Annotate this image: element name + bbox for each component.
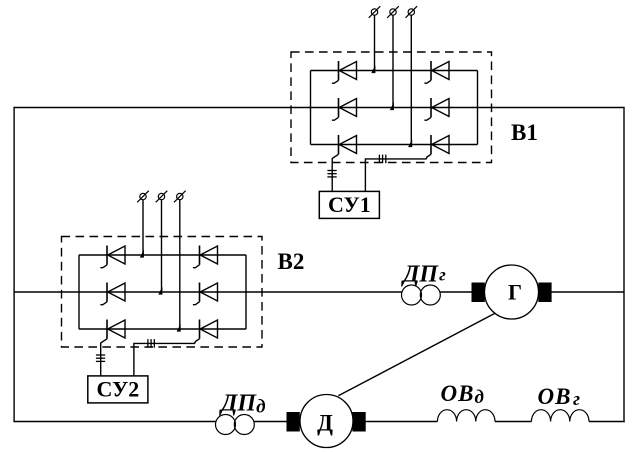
gate wire from B2 bottom-left thyristor to СУ2 — [101, 339, 107, 376]
shaft coupling line between Г and Д — [338, 313, 495, 396]
thyristor B1 bottom-left — [339, 135, 357, 154]
phase line 2 of B1 — [392, 15, 394, 107]
svg-text:ОВд: ОВд — [441, 381, 484, 408]
thyristor B2 middle-left — [107, 283, 125, 302]
bridge B2 frame left side — [78, 255, 80, 329]
svg-text:СУ2: СУ2 — [96, 377, 139, 402]
gate wire from B1 bottom-left thyristor to СУ1 — [332, 154, 338, 191]
cable marks on СУ1 left lead — [327, 171, 336, 177]
junction phase 3 to row 3 of B2 — [177, 324, 181, 332]
junction phase 2 to row 2 of B1 — [390, 102, 394, 110]
wire ОВг to right bus — [589, 421, 625, 423]
generator right wire — [551, 291, 624, 293]
gate wire from B1 bottom-right thyristor to СУ1 — [365, 154, 431, 191]
cable marks on СУ2 left lead — [96, 355, 105, 361]
wire motor Д to ОВд — [365, 421, 437, 423]
phase line 1 of B2 — [142, 200, 144, 255]
svg-text:ДПд: ДПд — [219, 391, 266, 418]
svg-text:ДПг: ДПг — [401, 262, 446, 288]
right vertical bus wire — [623, 107, 625, 422]
generator Г circle — [485, 265, 539, 319]
phase terminal 3 of B1 — [406, 6, 418, 18]
phase line 3 of B1 — [410, 15, 412, 144]
gate lead of B2 middle-left thyristor — [100, 302, 107, 305]
motor Д circle — [300, 395, 353, 448]
phase terminal 2 of B2 — [156, 191, 168, 203]
thyristor B1 bottom-right — [431, 135, 449, 154]
svg-text:В2: В2 — [278, 249, 305, 274]
thyristor B1 middle-left — [339, 98, 357, 117]
gate lead of B1 top-right thyristor — [424, 80, 431, 83]
brush terminal left of Г — [472, 283, 484, 302]
winding ДПг — [402, 285, 441, 305]
bridge B1 frame right side — [477, 71, 479, 145]
junction phase 1 to row 1 of B1 — [371, 65, 375, 73]
thyristor B1 top-left — [339, 61, 357, 80]
thyristor B2 top-right — [200, 246, 218, 265]
bridge B1 frame top side / row 1 wire — [311, 70, 478, 72]
main horizontal bus from B1 rectifier output — [14, 107, 311, 109]
gate lead of B1 middle-right thyristor — [424, 117, 431, 120]
svg-text:Г: Г — [508, 280, 522, 305]
thyristor B2 top-left — [107, 246, 125, 265]
thyristor B2 bottom-right — [200, 320, 218, 339]
winding ОВг — [531, 410, 589, 422]
junction phase 1 to row 1 of B2 — [140, 250, 144, 258]
gate lead of B1 top-left thyristor — [332, 80, 339, 83]
winding ОВд — [437, 410, 495, 422]
gate lead of B2 middle-right thyristor — [193, 302, 200, 305]
svg-text:СУ1: СУ1 — [328, 192, 371, 217]
phase terminal 2 of B1 — [387, 6, 399, 18]
cable marks on СУ2 right lead — [148, 339, 154, 348]
bridge B2 frame bottom side / row 3 wire — [79, 328, 246, 330]
gate lead of B2 top-right thyristor — [193, 265, 200, 268]
svg-text:В1: В1 — [511, 120, 538, 145]
brush terminal left of Д — [287, 413, 299, 432]
bottom bus wire left segment — [14, 421, 216, 423]
thyristor B2 bottom-left — [107, 320, 125, 339]
svg-text:Д: Д — [317, 411, 333, 436]
left vertical bus wire — [13, 107, 15, 422]
bridge B1 frame left side — [310, 71, 312, 145]
junction phase 3 to row 3 of B1 — [408, 139, 412, 147]
phase line 2 of B2 — [161, 200, 163, 292]
phase terminal 1 of B1 — [369, 6, 381, 18]
phase terminal 1 of B2 — [137, 191, 149, 203]
generator bus wire from B2 output to ДПг — [14, 291, 402, 293]
phase line 3 of B2 — [179, 200, 181, 329]
control unit СУ1 box — [319, 191, 379, 218]
thyristor B2 middle-right — [200, 283, 218, 302]
thyristor B1 middle-right — [431, 98, 449, 117]
wire ДПд to motor Д — [254, 421, 287, 423]
bridge B1 frame bottom side / row 3 wire — [311, 144, 478, 146]
brush terminal right of Г — [539, 283, 551, 302]
junction phase 2 to row 2 of B2 — [158, 287, 162, 295]
thyristor B1 top-right — [431, 61, 449, 80]
rectifier bridge B2 dashed outline — [62, 237, 263, 348]
bridge B2 frame top side / row 1 wire — [79, 254, 246, 256]
cable marks on СУ1 right lead — [379, 155, 385, 164]
phase terminal 3 of B2 — [174, 191, 186, 203]
phase line 1 of B1 — [374, 15, 376, 70]
wire ОВд to ОВг — [495, 421, 531, 423]
rectifier bridge B1 dashed outline — [291, 52, 492, 163]
gate lead of B1 middle-left thyristor — [332, 117, 339, 120]
winding ДПг to generator wire — [440, 291, 472, 293]
control unit СУ2 box — [88, 376, 148, 403]
gate wire from B2 bottom-right thyristor to СУ2 — [134, 339, 200, 376]
bridge B2 frame right side — [245, 255, 247, 329]
bridge B1 row 2 wire — [311, 107, 478, 109]
svg-text:ОВг: ОВг — [538, 384, 580, 410]
gate lead of B2 top-left thyristor — [100, 265, 107, 268]
winding ДПд — [216, 415, 255, 435]
brush terminal right of Д — [353, 413, 365, 432]
